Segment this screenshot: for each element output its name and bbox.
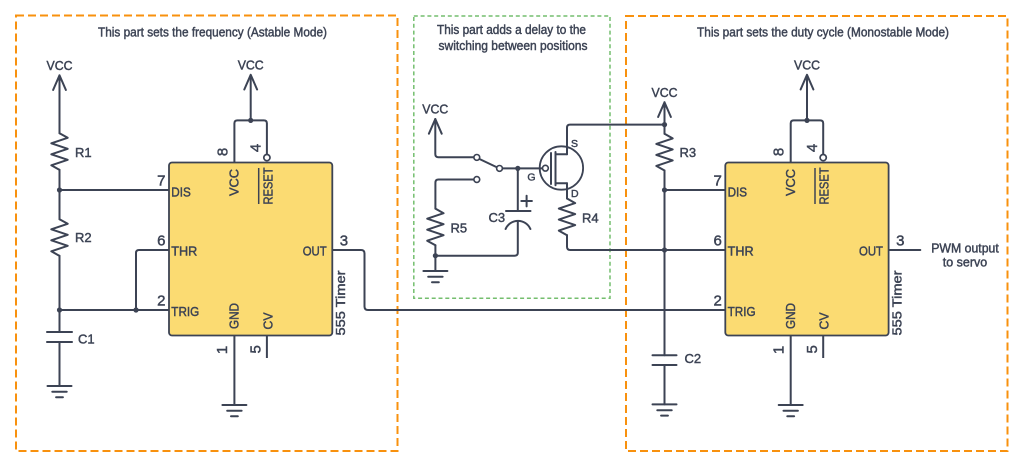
svg-text:to servo: to servo <box>943 254 987 269</box>
svg-text:PWM output: PWM output <box>931 240 999 255</box>
svg-text:R5: R5 <box>451 221 468 236</box>
svg-text:This part sets the frequency (: This part sets the frequency (Astable Mo… <box>98 25 327 40</box>
svg-text:R2: R2 <box>75 230 92 245</box>
svg-text:This part adds a delay to the: This part adds a delay to the <box>437 22 586 37</box>
svg-text:G: G <box>527 171 535 183</box>
svg-text:R4: R4 <box>582 211 599 226</box>
svg-text:D: D <box>571 188 579 200</box>
svg-text:R3: R3 <box>680 145 697 160</box>
svg-text:R1: R1 <box>75 145 92 160</box>
svg-text:switching between positions: switching between positions <box>439 38 588 53</box>
svg-text:C1: C1 <box>78 332 95 347</box>
svg-text:C2: C2 <box>685 351 702 366</box>
svg-text:This part sets the duty cycle: This part sets the duty cycle (Monostabl… <box>697 25 949 40</box>
svg-text:S: S <box>571 138 578 150</box>
svg-text:C3: C3 <box>489 210 506 225</box>
